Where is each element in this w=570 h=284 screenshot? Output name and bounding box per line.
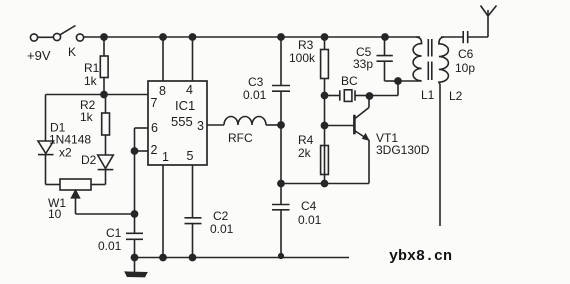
svg-text:8: 8	[159, 84, 166, 98]
node C1 bottom	[131, 254, 137, 260]
ground	[126, 258, 147, 277]
svg-text:3: 3	[197, 119, 204, 133]
diode D1	[38, 141, 54, 185]
capacitor C2	[185, 218, 202, 258]
inductor L1	[413, 37, 422, 81]
node R1 bottom	[101, 91, 107, 97]
svg-text:2: 2	[151, 143, 158, 157]
svg-text:BC: BC	[341, 74, 358, 88]
svg-text:C4: C4	[301, 199, 317, 213]
svg-text:33p: 33p	[353, 57, 373, 71]
node emitter rail left	[278, 180, 284, 186]
resistor R2	[102, 95, 110, 156]
wire pin2/6 vertical	[134, 128, 136, 233]
node BC left	[321, 92, 327, 98]
wire R3 node down to base node	[324, 96, 326, 184]
capacitor C6	[463, 31, 488, 43]
wire pin7 node	[46, 94, 149, 96]
wire collector to L1	[370, 81, 399, 96]
node L1 bottom	[395, 78, 401, 84]
wire pin 6	[135, 127, 149, 129]
svg-text:IC1: IC1	[175, 98, 195, 113]
wire L2 top to C6	[441, 36, 463, 38]
resistor R1	[100, 37, 108, 95]
crystal BC	[325, 90, 370, 102]
svg-text:1N4148: 1N4148	[49, 133, 91, 147]
capacitor C5	[377, 37, 399, 81]
node C5 top	[382, 34, 388, 40]
svg-text:R1: R1	[84, 61, 100, 75]
wire pin 4	[192, 37, 194, 81]
svg-text:10p: 10p	[455, 61, 475, 75]
svg-text:5: 5	[187, 149, 194, 163]
svg-text:0.01: 0.01	[243, 88, 267, 102]
node C2 bottom	[189, 254, 195, 260]
battery terminal +9V	[30, 33, 60, 41]
svg-text:0.01: 0.01	[98, 239, 122, 253]
svg-text:RFC: RFC	[228, 131, 253, 145]
wire pin 3	[207, 124, 224, 126]
svg-text:L1: L1	[421, 88, 435, 102]
svg-text:C1: C1	[106, 226, 122, 240]
wire bottom ground rail	[131, 257, 349, 259]
wire emitter bottom	[281, 183, 369, 185]
switch K	[60, 26, 84, 42]
resistor R3	[321, 37, 329, 96]
wire pin 2	[135, 150, 149, 152]
svg-text:555: 555	[171, 114, 193, 129]
capacitor C1	[126, 233, 143, 257]
node RFC out	[278, 122, 284, 128]
svg-text:3DG130D: 3DG130D	[376, 143, 430, 157]
IC U1 555	[148, 81, 207, 165]
wire L2 bottom	[439, 84, 441, 226]
wire top supply rail	[84, 36, 420, 38]
svg-text:R4: R4	[298, 133, 314, 147]
wire D1 branch	[45, 95, 47, 142]
wire C3 node down	[280, 125, 282, 184]
transformer core	[428, 39, 432, 80]
node pin4 top	[189, 34, 195, 40]
wire pin 1	[162, 165, 164, 258]
node pin8 top	[160, 34, 166, 40]
svg-text:C2: C2	[213, 209, 229, 223]
svg-text:D2: D2	[81, 153, 97, 167]
diode D2	[91, 155, 113, 185]
svg-text:0.01: 0.01	[298, 213, 322, 227]
antenna	[481, 6, 497, 38]
node R1 top	[101, 34, 107, 40]
node C3 top	[278, 34, 284, 40]
svg-text:7: 7	[151, 96, 158, 110]
node collector	[366, 93, 372, 99]
wire pin 8	[162, 37, 164, 81]
svg-text:100k: 100k	[289, 51, 316, 65]
wire pin 5	[192, 165, 194, 218]
svg-text:10: 10	[48, 207, 62, 221]
node R4 bottom	[321, 180, 327, 186]
node C4 bottom	[279, 254, 284, 259]
svg-text:R3: R3	[298, 38, 314, 52]
resistor R4	[321, 146, 329, 175]
svg-text:2k: 2k	[298, 146, 312, 160]
inductor L2	[439, 37, 449, 84]
wire node to L1	[398, 80, 417, 82]
wire wiper to pin2 line	[76, 213, 135, 215]
svg-text:C3: C3	[248, 75, 264, 89]
svg-text:L2: L2	[449, 89, 463, 103]
svg-text:0.01: 0.01	[210, 222, 234, 236]
potentiometer W1	[46, 179, 92, 214]
svg-text:1k: 1k	[84, 74, 98, 88]
svg-text:x2: x2	[59, 146, 72, 160]
transistor VT1	[325, 96, 370, 184]
svg-text:K: K	[68, 45, 76, 59]
capacitor C3	[272, 37, 290, 125]
capacitor C4	[272, 184, 290, 258]
wire RFC to node	[266, 124, 281, 126]
svg-text:ybx8.cn: ybx8.cn	[389, 248, 452, 265]
node R3 top	[321, 34, 327, 40]
svg-text:4: 4	[186, 83, 193, 97]
inductor RFC	[224, 117, 266, 126]
svg-text:C6: C6	[458, 47, 474, 61]
svg-text:1k: 1k	[80, 110, 94, 124]
node pin 2	[131, 148, 137, 154]
node wiper junction	[131, 211, 137, 217]
node pin1 bottom	[160, 254, 166, 260]
svg-text:1: 1	[162, 150, 169, 164]
node base junction	[321, 122, 327, 128]
svg-text:6: 6	[151, 121, 158, 135]
svg-text:+9V: +9V	[27, 48, 51, 63]
